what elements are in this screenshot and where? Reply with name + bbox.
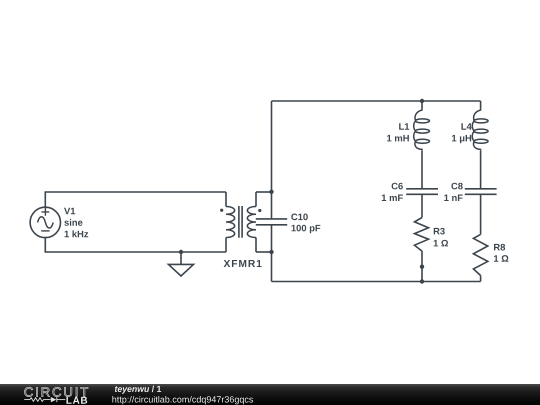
CircuitLab logo wordmark CIRCUIT	[24, 387, 88, 396]
junction dot bottom rail at R3 branch	[420, 279, 424, 283]
inductor L1	[414, 101, 430, 151]
CircuitLab logo wordmark LAB	[66, 397, 87, 404]
wire transformer secondary bottom to trunk	[256, 251, 272, 253]
label C6 1 mF	[382, 183, 403, 201]
transformer XFMR1	[220, 192, 261, 252]
label L1 1 mH	[387, 123, 409, 141]
wire bottom rail	[272, 281, 481, 283]
footer bar	[0, 384, 540, 405]
wire L1 to C6	[421, 151, 423, 189]
label C10 100 pF	[291, 214, 320, 234]
wire V1 bottom to transformer primary bottom	[45, 238, 226, 252]
inductor L4	[472, 101, 488, 151]
wire V1 top to transformer primary top	[45, 192, 226, 207]
wire top rail	[272, 100, 481, 102]
voltage source V1	[30, 207, 60, 237]
junction dot below R3	[420, 265, 424, 269]
label R3 1 ohm	[434, 228, 448, 247]
footer url text	[112, 396, 253, 404]
junction dot secondary bottom node	[269, 250, 273, 254]
label C8 1 nF	[444, 183, 462, 201]
label R8 1 ohm	[494, 244, 508, 262]
label L4 1 uH	[452, 123, 472, 143]
junction dot secondary top node	[269, 190, 273, 194]
footer username text	[115, 386, 161, 394]
CircuitLab logo circuit underline with resistor and diode	[24, 397, 65, 402]
capacitor C6	[406, 189, 438, 195]
junction dot top rail at L1 branch	[420, 99, 424, 103]
wire R8 to bottom rail	[480, 276, 482, 282]
junction dot ground node	[179, 250, 183, 254]
ground	[169, 252, 194, 276]
resistor R8	[473, 234, 487, 275]
label V1 sine 1 kHz	[64, 208, 88, 237]
wire transformer secondary top to trunk	[256, 191, 272, 193]
resistor R3	[415, 218, 429, 252]
wire L4 to C8	[480, 151, 482, 189]
wire trunk upper segment	[271, 101, 273, 219]
wire C8 to R8	[480, 194, 482, 234]
label XFMR1	[224, 260, 262, 267]
capacitor C10	[256, 219, 287, 225]
wire R3 to bottom rail	[421, 251, 423, 281]
capacitor C8	[465, 189, 497, 195]
wire trunk lower segment	[271, 225, 273, 282]
wire C6 to R3	[421, 194, 423, 217]
